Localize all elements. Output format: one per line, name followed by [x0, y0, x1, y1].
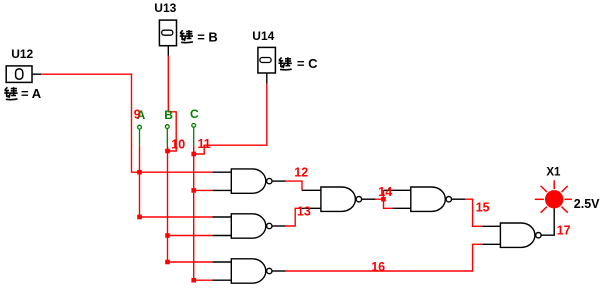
svg-text:11: 11	[198, 137, 211, 151]
svg-text:U12: U12	[11, 47, 33, 61]
svg-text:16: 16	[371, 260, 385, 274]
svg-text:U13: U13	[154, 1, 176, 15]
svg-text:15: 15	[476, 201, 490, 215]
svg-text:9: 9	[134, 107, 141, 121]
svg-text:= A: = A	[21, 86, 42, 101]
svg-text:12: 12	[294, 165, 308, 179]
svg-text:17: 17	[557, 224, 571, 238]
svg-text:13: 13	[297, 204, 311, 218]
svg-text:= B: = B	[197, 30, 218, 45]
svg-text:X1: X1	[546, 166, 561, 178]
svg-text:B: B	[164, 108, 173, 122]
svg-text:2.5V: 2.5V	[574, 197, 600, 211]
svg-text:= C: = C	[297, 56, 318, 71]
svg-text:U14: U14	[252, 29, 274, 43]
svg-text:10: 10	[171, 138, 185, 152]
svg-text:C: C	[190, 107, 199, 121]
svg-text:14: 14	[378, 185, 392, 199]
